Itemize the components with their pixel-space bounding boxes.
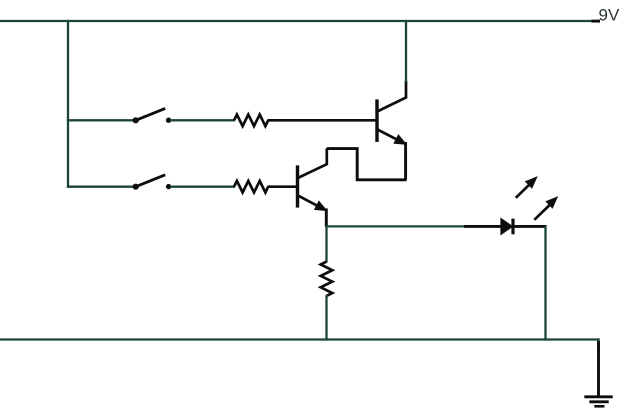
LED D1 anode lead bbox=[464, 225, 501, 228]
transistor Q2 (NPN) base bar bbox=[296, 165, 299, 207]
wire: bottom rail to ground symbol bbox=[597, 338, 599, 349]
wire: R2 to Q2 base bbox=[268, 185, 297, 188]
transistor Q1 emitter bbox=[378, 130, 403, 143]
wire: Q2 collector to Q1 emitter (stair) bbox=[327, 149, 407, 180]
transistor Q1 (NPN) base bar bbox=[375, 99, 378, 141]
resistor R3 bbox=[321, 262, 333, 296]
wire: left vertical bus from 9V rail bbox=[67, 20, 69, 188]
LED D1 light ray arrow 2 bbox=[534, 205, 550, 220]
LED D1 light ray arrow 1 bbox=[516, 185, 530, 198]
ground GND bar 1 bbox=[584, 395, 612, 398]
LED D1 cathode lead bbox=[513, 225, 547, 228]
switch SW2 (open SPST) bbox=[133, 184, 172, 190]
wire: R1 to Q1 base bbox=[268, 119, 377, 122]
wire: branch to switch SW1 bbox=[67, 119, 134, 121]
wire: R3 to bottom rail bbox=[325, 295, 327, 341]
switch SW1 (open SPST) bbox=[133, 117, 172, 123]
transistor Q1 collector bbox=[378, 81, 407, 112]
wire: Q2 emitter node down to R3 bbox=[325, 226, 327, 263]
LED D1 cathode bar bbox=[511, 219, 514, 235]
wire: bottom (ground) rail bbox=[0, 338, 600, 340]
ground GND bar 3 bbox=[594, 405, 604, 408]
transistor Q2 emitter bbox=[298, 196, 323, 209]
LED D1 triangle bbox=[501, 219, 512, 235]
ground GND bar 2 bbox=[589, 400, 608, 403]
svg-text:9V: 9V bbox=[599, 5, 620, 24]
wire: LED cathode down to bottom rail bbox=[544, 226, 546, 341]
node 9V terminal stub bbox=[592, 20, 601, 23]
wire: branch to switch SW2 bbox=[67, 186, 134, 188]
wire: 9V rail to Q1 collector bbox=[405, 20, 407, 82]
ground GND lead bbox=[597, 341, 600, 397]
resistor R1 bbox=[234, 115, 268, 127]
resistor R2 bbox=[234, 181, 268, 193]
transistor Q2 collector bbox=[298, 148, 327, 178]
wire: Q2 emitter node to LED bbox=[326, 225, 466, 227]
wire: SW1 to resistor R1 bbox=[170, 119, 235, 121]
wire: 9V top rail bbox=[0, 20, 593, 22]
wire: SW2 to resistor R2 bbox=[170, 186, 235, 188]
